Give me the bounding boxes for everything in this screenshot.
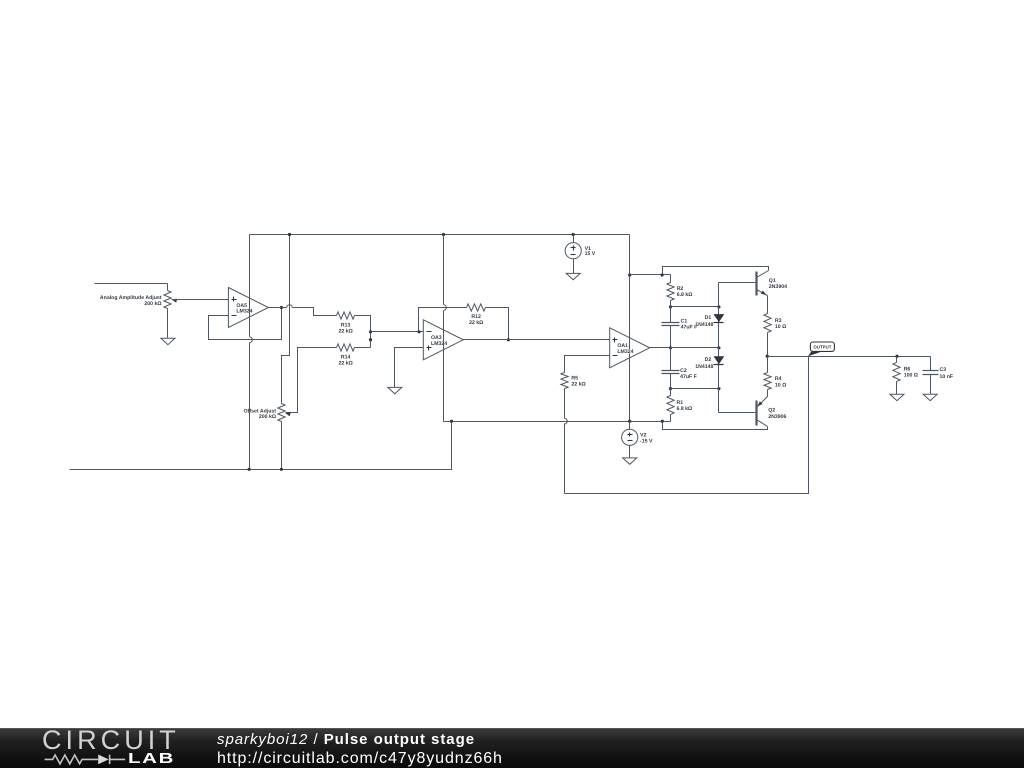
- wire OA3 noninverting input to ground: [395, 348, 424, 388]
- diode D1 1N4148: [714, 314, 724, 322]
- node R2 bottom junction: [669, 305, 672, 308]
- node output junction: [766, 355, 769, 358]
- node diode string bottom junction: [717, 387, 720, 390]
- OA1 minus input mark: [613, 355, 618, 357]
- wire hop over offset feed: [287, 305, 293, 308]
- resistor R6 100 Ω: [893, 357, 900, 395]
- ground below Analog Amplitude Adjust: [161, 338, 175, 344]
- op-amp OA5 LM324: [228, 288, 268, 328]
- wire OA5 feedback loop output to inverting input: [209, 308, 282, 340]
- node top rail OA3 supply: [442, 233, 445, 236]
- capacitor C2 47uF: [662, 348, 680, 389]
- wire +15V top rail: [250, 234, 630, 236]
- node negative rail V2: [628, 420, 631, 423]
- wire -15V rail: [444, 421, 671, 423]
- resistor R13 22 kΩ: [337, 312, 355, 319]
- wire R4 to Q2 emitter: [767, 390, 769, 397]
- resistor R3 10 Ω: [764, 314, 771, 333]
- wire hop OA5 supply over feedback: [250, 337, 253, 343]
- node diode string top junction: [717, 305, 720, 308]
- node R13/R14 junction lower: [369, 338, 372, 341]
- wire OA3 supply vertical: [443, 235, 445, 422]
- potentiometer Analog Amplitude Adjust 200 kΩ: [164, 284, 177, 339]
- label OA5 LM324: [236, 303, 252, 315]
- ground below V2: [623, 458, 637, 464]
- node stage top branch: [661, 273, 664, 276]
- wire R13 right to summing node: [355, 316, 371, 348]
- label R6: [904, 367, 918, 379]
- voltage source V1 15 V: [565, 235, 581, 274]
- label Analog Amplitude Adjust: [100, 295, 162, 307]
- wire hop OA3 supply over R12 loop: [444, 305, 447, 311]
- resistor R1 6.8 kΩ: [667, 389, 674, 422]
- wire diode bottom to Q2 base: [719, 412, 757, 414]
- wire R5 bottom to feedback run: [564, 389, 566, 494]
- label R4: [775, 376, 786, 388]
- resistor R5 22 kΩ: [561, 373, 568, 389]
- node negative rail output stage: [661, 420, 664, 423]
- node R13/R14 junction upper: [369, 330, 372, 333]
- wire OA3 output to OA1 input: [463, 339, 610, 341]
- resistor R4 10 Ω: [764, 357, 771, 390]
- label Q1: [769, 278, 787, 290]
- wire summing node to OA3 inverting input: [371, 331, 424, 333]
- diode D2 1N4148: [714, 357, 724, 365]
- wire R3 to output node: [767, 333, 769, 357]
- wire OA1 inverting input to R5: [565, 356, 610, 373]
- label R1: [677, 400, 693, 412]
- label V2: [640, 432, 653, 444]
- ground below V1: [566, 273, 580, 279]
- wire OA5 supply vertical: [249, 235, 251, 470]
- node R6 tap: [895, 355, 898, 358]
- wire hop R5 over negative rail: [565, 418, 568, 424]
- capacitor C1 47uF: [662, 307, 680, 348]
- node negative rail to lower rail: [450, 420, 453, 423]
- label C2: [680, 368, 697, 380]
- node top rail V1: [572, 233, 575, 236]
- label R5: [571, 375, 585, 387]
- wire diode string vertical: [718, 283, 720, 413]
- label V1: [585, 246, 596, 257]
- wire OA5 output to R13: [269, 308, 337, 316]
- wire R14 right lead: [355, 347, 371, 349]
- label R3: [775, 318, 786, 330]
- wire input stub to Analog Amplitude Adjust: [95, 283, 168, 285]
- OA1 plus input mark: [613, 338, 618, 343]
- node R12 output junction: [507, 338, 510, 341]
- resistor R2 6.8 kΩ: [667, 275, 674, 307]
- label D1: [695, 315, 713, 328]
- label R12: [469, 314, 483, 326]
- label Offset Adjust: [244, 408, 277, 420]
- ground below R6: [890, 394, 904, 400]
- wire output node to R6 and C3: [768, 356, 931, 358]
- resistor R12 22 kΩ: [467, 304, 486, 311]
- wire offset pot bottom to negative rail: [281, 422, 283, 470]
- label Q2: [768, 408, 786, 420]
- node lower rail offset pot: [280, 468, 283, 471]
- wire stage top to Q1 collector: [663, 267, 769, 275]
- wire OA3 feedback loop with R12: [419, 308, 509, 340]
- capacitor C3 10 nF: [923, 357, 939, 395]
- wire lower negative rail: [70, 422, 452, 470]
- wire Q1 emitter to R3: [767, 296, 769, 314]
- wire feedback run to output node: [565, 357, 809, 494]
- voltage source V2 -15 V: [622, 422, 638, 458]
- flag OUTPUT: [808, 342, 835, 356]
- wire Q2 collector to negative rail: [663, 422, 768, 430]
- potentiometer Offset Adjust 200 kΩ: [278, 404, 291, 422]
- transistor Q1 2N3904: [757, 271, 769, 296]
- wire pot wiper to OA5 noninverting input: [172, 299, 229, 301]
- wire V+ feed to R2: [630, 274, 671, 276]
- label R14: [339, 355, 353, 367]
- label OA3 LM324: [431, 335, 447, 347]
- label R2: [677, 286, 693, 298]
- wire offset feed from top rail: [282, 235, 290, 404]
- OA3 plus input mark: [427, 346, 432, 351]
- op-amp OA3 LM324: [423, 320, 463, 360]
- label OA1 LM324: [617, 343, 633, 355]
- wire R14 left to offset wiper: [286, 348, 337, 413]
- ground at OA3 noninverting input: [388, 387, 402, 393]
- ground below C3: [923, 394, 937, 400]
- OA5 minus input mark: [232, 315, 237, 317]
- wire OA1 supply vertical: [629, 235, 631, 422]
- op-amp OA1 LM324: [610, 328, 650, 368]
- node mid rail diode junction: [717, 346, 720, 349]
- wire diode top to Q1 base: [719, 282, 757, 284]
- label D2: [695, 357, 713, 370]
- wire R2 bottom to diode string: [671, 306, 719, 308]
- transistor Q2 2N3906: [757, 397, 768, 427]
- wire OA1 output mid rail: [650, 347, 719, 349]
- node C1 bottom on mid rail: [669, 346, 672, 349]
- node OA3 feedback tap: [417, 330, 420, 333]
- resistor R14 22 kΩ: [337, 344, 355, 351]
- node lower rail OA5 supply: [248, 468, 251, 471]
- node top rail offset feed: [288, 233, 291, 236]
- label C1: [681, 319, 698, 331]
- label C3: [940, 367, 954, 380]
- OA5 plus input mark: [232, 297, 237, 302]
- node V+ stage feed: [628, 273, 631, 276]
- node OA5 output junction: [280, 306, 283, 309]
- wire C2 bottom to diode string: [671, 388, 719, 390]
- OA3 minus input mark: [427, 331, 432, 333]
- label R13: [339, 323, 353, 335]
- node C2 bottom junction: [669, 387, 672, 390]
